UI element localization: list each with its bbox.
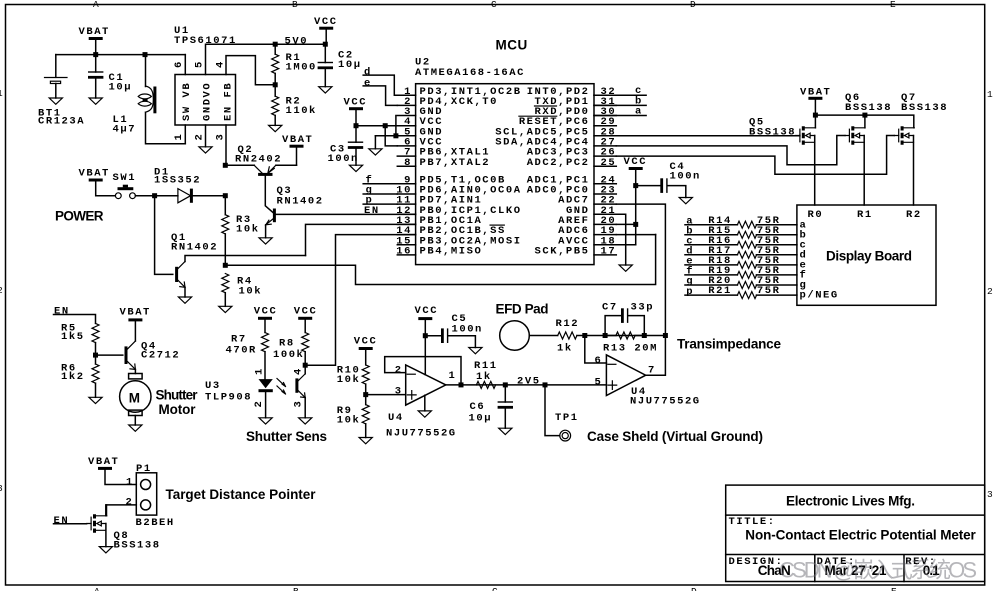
svg-text:R21: R21 <box>708 285 732 297</box>
svg-text:100n: 100n <box>452 324 483 336</box>
resistor R4 <box>223 263 228 268</box>
wire Q6 source to R1 <box>863 136 865 206</box>
svg-text:VBAT: VBAT <box>88 456 119 468</box>
U2 pin 28 <box>594 135 616 137</box>
svg-text:TP1: TP1 <box>555 412 579 424</box>
svg-text:Electronic Lives Mfg.: Electronic Lives Mfg. <box>786 494 915 509</box>
regulator U1 TPS61071 <box>175 75 236 126</box>
svg-text:VCC: VCC <box>254 305 278 317</box>
U2 pin 22 <box>594 203 616 205</box>
svg-text:1: 1 <box>126 476 134 488</box>
U2 pin 31 <box>594 104 616 106</box>
resistor R21 75R <box>685 294 797 296</box>
svg-text:EN: EN <box>364 205 380 217</box>
svg-text:E: E <box>891 586 898 591</box>
wire Q5 drain <box>814 115 816 128</box>
wire VCC vertical C4 <box>635 170 637 245</box>
resistor R1 <box>274 44 276 54</box>
wire net g pin10 <box>363 193 397 195</box>
svg-text:VBAT: VBAT <box>120 307 151 319</box>
pin 4 wire FB <box>226 56 275 85</box>
svg-text:2: 2 <box>253 400 265 408</box>
ground pin21 <box>619 265 632 271</box>
svg-text:Non-Contact Electric Potential: Non-Contact Electric Potential Meter <box>745 528 976 543</box>
svg-text:2: 2 <box>987 286 994 297</box>
wire pin6 from R12 node <box>585 336 607 364</box>
svg-text:1k: 1k <box>557 343 573 355</box>
svg-text:10μ: 10μ <box>338 59 362 71</box>
MCU U2 box <box>416 84 594 265</box>
resistor R16 75R <box>685 244 797 246</box>
svg-text:3: 3 <box>215 133 227 141</box>
svg-text:VCC: VCC <box>354 336 378 348</box>
U2 pin 18 <box>594 244 616 246</box>
svg-text:4μ7: 4μ7 <box>113 124 137 136</box>
ground LED <box>259 418 272 424</box>
EFD pad electrode <box>500 321 530 351</box>
ground C5 <box>469 348 482 354</box>
capacitor C2 <box>324 44 326 62</box>
svg-text:RN1402: RN1402 <box>277 196 324 208</box>
svg-text:17: 17 <box>601 246 617 258</box>
svg-text:4: 4 <box>215 60 227 68</box>
U2 pin 7 <box>397 155 415 157</box>
wire pin14 to shutter sens <box>305 235 415 366</box>
svg-text:EN: EN <box>54 306 70 318</box>
svg-text:Display Board: Display Board <box>826 249 912 264</box>
U2 pin 30 <box>594 115 616 117</box>
svg-text:PB4,MISO: PB4,MISO <box>420 246 483 258</box>
svg-text:C: C <box>491 0 498 10</box>
svg-text:Motor: Motor <box>159 402 197 417</box>
svg-text:U4: U4 <box>388 412 404 424</box>
overline RXD pin30 <box>535 105 557 107</box>
ground <box>49 98 62 104</box>
svg-text:SW1: SW1 <box>113 172 137 184</box>
U2 pin 27 <box>594 145 616 147</box>
ground R6 <box>89 397 102 403</box>
svg-text:R2: R2 <box>906 209 922 221</box>
svg-text:RN2402: RN2402 <box>235 154 282 166</box>
svg-text:R13 20M: R13 20M <box>603 343 658 355</box>
wire to U4a + input <box>366 394 406 396</box>
svg-text:33p: 33p <box>631 302 655 314</box>
svg-text:TLP908: TLP908 <box>205 392 252 404</box>
svg-text:1: 1 <box>254 367 266 375</box>
svg-text:C6: C6 <box>470 401 486 413</box>
svg-text:6: 6 <box>595 355 603 367</box>
ground motor <box>129 425 142 431</box>
resistor R18 75R <box>685 264 797 266</box>
wire net b pin31 <box>594 104 646 106</box>
svg-text:EN: EN <box>54 515 70 527</box>
svg-text:BSS138: BSS138 <box>845 102 892 114</box>
svg-text:C: C <box>492 586 499 591</box>
wire pin3/pin5 tie <box>375 116 397 136</box>
resistor R2 <box>274 85 276 96</box>
wire base Q4 <box>96 354 123 356</box>
svg-text:1k5: 1k5 <box>61 331 85 343</box>
svg-text:100n: 100n <box>328 153 359 165</box>
svg-text:VCC: VCC <box>624 156 648 168</box>
wire VBAT rail <box>56 54 186 56</box>
U2 pin 11 <box>397 203 415 205</box>
U2 pin 13 <box>397 223 415 225</box>
U2 pin 12 <box>397 213 415 215</box>
svg-text:R1: R1 <box>857 209 873 221</box>
wire pin5 gnd stem <box>374 136 376 149</box>
svg-text:BSS138: BSS138 <box>114 540 161 552</box>
svg-text:EFD Pad: EFD Pad <box>496 302 549 317</box>
inductor L1 <box>145 55 147 87</box>
U2 pin 23 <box>594 193 616 195</box>
wire U4a output <box>446 384 461 386</box>
svg-text:3: 3 <box>293 400 305 408</box>
svg-text:U3: U3 <box>205 380 221 392</box>
display board box <box>797 205 936 305</box>
svg-text:100n: 100n <box>670 171 701 183</box>
svg-text:PB7,XTAL2: PB7,XTAL2 <box>420 157 491 169</box>
svg-text:1: 1 <box>0 88 4 99</box>
pin 6 wire <box>184 55 186 75</box>
svg-text:10k: 10k <box>239 286 263 298</box>
wire net c pin32 <box>594 94 646 96</box>
wire output pin7 <box>646 336 666 376</box>
U2 pin 19 <box>594 234 616 236</box>
U2 pin 15 <box>397 244 415 246</box>
svg-text:GNDVO: GNDVO <box>202 82 214 121</box>
wire net p pin11 <box>363 203 397 205</box>
light arrows <box>277 379 286 387</box>
svg-text:C7: C7 <box>602 302 618 314</box>
op-amp U4 first half <box>406 365 446 405</box>
U2 pin 2 <box>397 104 415 106</box>
svg-text:VBAT: VBAT <box>79 26 110 38</box>
U2 pin 25 <box>594 165 616 167</box>
U2 pin 29 <box>594 125 616 127</box>
wire U4a feedback <box>385 357 461 385</box>
U2 pin 24 <box>594 183 616 185</box>
wire Q6 drain <box>864 115 866 128</box>
svg-text:10k: 10k <box>337 374 361 386</box>
svg-text:2: 2 <box>0 285 4 296</box>
resistor R19 75R <box>685 274 797 276</box>
title block box <box>726 485 985 581</box>
svg-text:Shutter Sens: Shutter Sens <box>246 429 327 444</box>
svg-text:POWER: POWER <box>55 209 104 224</box>
svg-text:1: 1 <box>173 133 185 141</box>
wire 2V5 rail <box>461 384 606 386</box>
svg-text:R8: R8 <box>279 338 295 350</box>
svg-text:ADC2,PC2: ADC2,PC2 <box>527 157 590 169</box>
svg-text:D: D <box>690 0 697 10</box>
wire net a pin30 <box>594 115 646 117</box>
svg-text:NJU77552G: NJU77552G <box>630 396 701 408</box>
ground <box>89 98 102 104</box>
battery BT1 <box>55 55 57 78</box>
wire pin19 ADC6 <box>616 234 655 236</box>
ground C3 <box>349 165 362 171</box>
svg-text:6: 6 <box>173 60 185 68</box>
capacitor C1 <box>95 55 97 72</box>
wire U4a to ground <box>424 395 426 411</box>
resistor R14 75R <box>685 224 797 226</box>
svg-text:e: e <box>364 77 372 89</box>
U2 pin 4 <box>397 125 415 127</box>
U2 pin 10 <box>397 193 415 195</box>
wire pin20 AREF to VCC rail <box>616 223 635 225</box>
svg-text:p/NEG: p/NEG <box>800 290 839 302</box>
svg-text:110k: 110k <box>286 105 317 117</box>
wire pin18 AVCC to VCC rail <box>616 244 635 246</box>
svg-text:A: A <box>94 586 101 591</box>
U2 pin 21 <box>594 213 616 215</box>
svg-text:VBAT: VBAT <box>282 134 313 146</box>
svg-text:SW VB: SW VB <box>181 82 193 121</box>
wire net d to pin1 <box>363 75 397 95</box>
svg-text:BSS138: BSS138 <box>901 102 948 114</box>
svg-text:25: 25 <box>601 157 617 169</box>
svg-text:C2712: C2712 <box>141 349 180 361</box>
svg-text:TITLE:: TITLE: <box>729 516 776 528</box>
U2 pin 1 <box>397 94 415 96</box>
svg-text:10k: 10k <box>236 224 260 236</box>
svg-text:A: A <box>93 0 100 10</box>
pin 3 wire EN down <box>225 125 227 165</box>
svg-text:16: 16 <box>396 246 412 258</box>
svg-text:CSDN @嵌入式系统OS: CSDN @嵌入式系统OS <box>779 558 977 583</box>
svg-text:3: 3 <box>0 483 4 494</box>
ground MCU gnd pins <box>369 149 382 155</box>
svg-text:10k: 10k <box>337 415 361 427</box>
svg-text:VCC: VCC <box>314 16 338 28</box>
wire pin4/pin6 tie <box>356 126 397 146</box>
svg-text:Case Sheld (Virtual Ground): Case Sheld (Virtual Ground) <box>587 429 763 444</box>
capacitor C4 <box>636 185 661 187</box>
svg-text:8: 8 <box>404 157 412 169</box>
U2 pin 14 <box>397 234 415 236</box>
resistor R11 zigzag <box>476 381 495 388</box>
svg-text:B: B <box>292 0 299 10</box>
svg-text:Transimpedance: Transimpedance <box>677 337 781 352</box>
svg-text:1k2: 1k2 <box>61 371 85 383</box>
ground phototransistor <box>299 418 312 424</box>
svg-text:1: 1 <box>987 89 994 100</box>
svg-text:5V0: 5V0 <box>285 36 309 48</box>
svg-text:p: p <box>686 286 694 298</box>
svg-text:NJU77552G: NJU77552G <box>386 427 457 439</box>
svg-text:EN FB: EN FB <box>223 82 235 121</box>
pin 1 wire <box>184 125 186 144</box>
svg-text:1: 1 <box>449 370 457 382</box>
svg-text:E: E <box>890 0 897 10</box>
shutter motor M <box>129 374 143 379</box>
op-amp U4 second half <box>606 355 645 396</box>
svg-text:VCC: VCC <box>344 96 368 108</box>
ground Q8 <box>99 547 112 553</box>
wire Q5 gate from pin28 <box>616 135 800 137</box>
svg-text:4: 4 <box>293 367 305 375</box>
svg-text:470R: 470R <box>226 345 257 357</box>
U2 pin 17 <box>594 254 616 256</box>
U2 pin 16 <box>397 254 415 256</box>
svg-text:B2BEH: B2BEH <box>136 517 175 529</box>
U2 pin 6 <box>397 145 415 147</box>
wire PB1 to MCU pin13 <box>306 224 416 255</box>
svg-text:BSS138: BSS138 <box>749 127 796 139</box>
svg-text:M: M <box>129 391 140 406</box>
U2 pin 8 <box>397 165 415 167</box>
title block dividers <box>726 515 985 581</box>
ground C4 <box>679 198 692 204</box>
U2 pin 5 <box>397 135 415 137</box>
svg-text:Shutter: Shutter <box>156 388 199 403</box>
overline RESET pin29 <box>519 115 557 117</box>
wire Q7 source to R2 <box>913 136 915 206</box>
resistor R15 75R <box>685 234 797 236</box>
wire Q5 source to R0 <box>814 136 816 206</box>
overline SS pin14 <box>490 224 504 226</box>
resistor R20 75R <box>685 284 797 286</box>
svg-text:VBAT: VBAT <box>800 87 831 99</box>
svg-text:CR123A: CR123A <box>38 116 85 128</box>
svg-text:D: D <box>691 586 698 591</box>
wire VCC to pin4 rail <box>355 109 357 143</box>
svg-text:2: 2 <box>395 364 403 376</box>
svg-text:10μ: 10μ <box>109 82 133 94</box>
svg-text:VCC: VCC <box>415 305 439 317</box>
svg-text:5: 5 <box>194 60 206 68</box>
svg-text:10μ: 10μ <box>469 413 493 425</box>
svg-text:ATMEGA168-16AC: ATMEGA168-16AC <box>415 67 525 79</box>
svg-text:VBAT: VBAT <box>79 167 110 179</box>
wire net f pin9 <box>363 183 397 185</box>
capacitor C3 <box>348 142 363 147</box>
svg-text:100k: 100k <box>273 349 304 361</box>
resistor R3 <box>224 196 226 215</box>
wire pin21 GND <box>616 214 625 265</box>
resistor R13 20M <box>605 335 644 337</box>
ground R9 <box>359 438 372 444</box>
wire VBAT rail Q5-Q7 <box>815 115 913 128</box>
svg-text:2: 2 <box>194 133 206 141</box>
svg-text:VCC: VCC <box>294 305 318 317</box>
svg-text:SCK,PB5: SCK,PB5 <box>535 246 590 258</box>
U2 pin 20 <box>594 223 616 225</box>
U2 pin 9 <box>397 183 415 185</box>
wire pad to R12 <box>529 335 557 337</box>
svg-text:R0: R0 <box>808 209 824 221</box>
wire R4 node to MCU ADC6 <box>225 235 655 285</box>
wire net e to pin2 <box>363 86 397 106</box>
svg-text:1M00: 1M00 <box>286 62 317 74</box>
wire Q6 gate from pin27 <box>616 136 845 165</box>
ground <box>199 147 212 153</box>
wire pin2 to Q8 <box>106 505 137 516</box>
pin 5 wire to 5V0 <box>206 44 326 74</box>
svg-text:B: B <box>293 586 300 591</box>
svg-text:5: 5 <box>595 376 603 388</box>
wire Q7 gate from pin26 <box>616 136 894 175</box>
svg-text:RN1402: RN1402 <box>171 242 218 254</box>
wire pin22 ADC7 down to transimpedance <box>616 204 665 335</box>
svg-text:2: 2 <box>126 497 134 509</box>
U2 pin 3 <box>397 115 415 117</box>
U2 pin 32 <box>594 94 616 96</box>
pin 2 wire <box>205 125 207 147</box>
svg-text:3: 3 <box>987 489 994 500</box>
svg-text:75R: 75R <box>757 285 781 297</box>
svg-text:3: 3 <box>395 386 403 398</box>
svg-text:R12: R12 <box>556 318 580 330</box>
U2 pin 26 <box>594 155 616 157</box>
svg-text:MCU: MCU <box>496 38 528 53</box>
resistor R17 75R <box>685 254 797 256</box>
svg-text:1SS352: 1SS352 <box>154 175 201 187</box>
svg-text:Target Distance Pointer: Target Distance Pointer <box>166 487 317 502</box>
